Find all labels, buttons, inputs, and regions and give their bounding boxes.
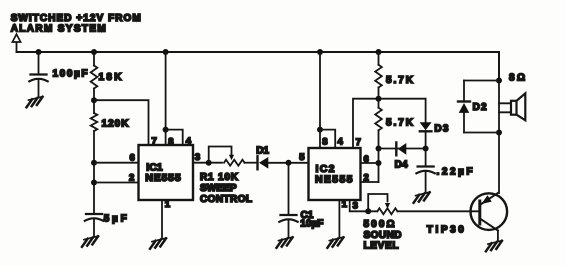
wire 500 ohm to TIP30 base	[397, 210, 479, 212]
svg-text:LEVEL: LEVEL	[364, 240, 399, 251]
svg-text:4: 4	[338, 137, 344, 148]
diode D2	[458, 81, 499, 133]
wire IC2 pin 6	[361, 162, 379, 164]
svg-text:SWEEP: SWEEP	[200, 183, 237, 194]
svg-text:D3: D3	[434, 124, 448, 135]
wire R1 to D1	[245, 162, 258, 164]
node 5.7K mid junction	[376, 96, 382, 102]
svg-text:100µF: 100µF	[53, 69, 88, 80]
wire 18K to junction	[93, 89, 95, 114]
IC1 designator text	[145, 162, 181, 185]
wire 5.7K upper to junction	[378, 88, 380, 108]
junction on rail at 100uF	[36, 49, 42, 55]
potentiometer 500 ohm wiper loop	[368, 194, 390, 211]
svg-text:8Ω: 8Ω	[509, 73, 525, 84]
svg-text:ALARM SYSTEM: ALARM SYSTEM	[11, 24, 106, 35]
wire junction to IC1 pin 7	[94, 100, 149, 145]
potentiometer R1 wiper loop	[209, 147, 234, 163]
wire +12V top rail	[17, 52, 500, 81]
svg-text:8: 8	[168, 137, 173, 148]
ground below 5uF	[82, 236, 98, 247]
svg-text:5µF: 5µF	[104, 214, 127, 225]
svg-text:10µF: 10µF	[300, 219, 323, 230]
node IC1 pin 6 junction	[91, 160, 97, 166]
resistor 120K	[91, 113, 98, 131]
svg-text:1: 1	[342, 199, 348, 210]
wire junction to .22uF	[425, 149, 427, 167]
node IC2 pin 6 junction	[376, 160, 382, 166]
node D3/.22uF junction	[423, 146, 429, 152]
resistor R1 10K element	[224, 160, 245, 166]
op-amp/timer IC1 NE555 box	[139, 145, 194, 200]
junction on rail at 5.7K	[376, 49, 382, 55]
capacitor 5uF	[85, 214, 103, 221]
ground below .22uF	[414, 192, 430, 203]
node 500 ohm left junction	[365, 208, 371, 214]
wire IC2 pin 7 up	[353, 99, 426, 148]
svg-text:500Ω: 500Ω	[364, 219, 395, 230]
wire IC2 pin 8 to pin 4 loop	[320, 130, 335, 148]
wire IC1 pin 3 output	[193, 162, 222, 164]
label 500 ohm SOUND LEVEL	[364, 219, 402, 252]
diode D3	[420, 99, 432, 149]
svg-text:TIP30: TIP30	[427, 224, 464, 235]
svg-text:2: 2	[129, 173, 134, 184]
wire IC2 pin 2	[361, 181, 379, 183]
wire rail to 100uF	[38, 52, 40, 74]
svg-text:7: 7	[152, 136, 157, 147]
resistor 5.7K lower	[375, 108, 382, 131]
svg-text:5.7K: 5.7K	[386, 75, 414, 86]
node D4 left junction	[376, 146, 382, 152]
junction on rail at 18K	[91, 49, 97, 55]
svg-text:CONTROL: CONTROL	[200, 194, 252, 205]
svg-text:120K: 120K	[102, 119, 130, 130]
node IC2 pin8/pin4 tie	[317, 127, 323, 133]
node IC1 pin 2 junction	[91, 180, 97, 186]
wire to IC1 pin 6	[94, 162, 139, 164]
wire C1 to ground	[288, 220, 290, 238]
node C1 junction	[286, 160, 292, 166]
resistor 500 ohm element	[377, 208, 397, 214]
ground below IC2 pin 1	[327, 237, 343, 248]
wire 5uF to ground	[93, 219, 95, 237]
wire .22uF to ground	[425, 171, 427, 192]
svg-text:R1 10K: R1 10K	[200, 172, 239, 183]
ground below 100uF	[27, 97, 43, 108]
wire IC1 pin 8 to pin 4 loop	[166, 130, 183, 145]
ground below IC1 pin 1	[150, 238, 166, 249]
capacitor 100uF	[29, 75, 47, 82]
node IC1 pin8/pin4 tie	[163, 127, 169, 133]
resistor 5.7K upper	[375, 65, 382, 88]
svg-text:D2: D2	[473, 102, 487, 113]
diode D4	[379, 143, 426, 156]
svg-text:8: 8	[322, 137, 327, 148]
svg-text:SWITCHED +12V FROM: SWITCHED +12V FROM	[11, 13, 141, 24]
svg-text:6: 6	[130, 152, 135, 163]
svg-text:NE555: NE555	[315, 173, 353, 185]
svg-text:3: 3	[195, 152, 200, 163]
wire to IC1 pin 2	[94, 182, 139, 184]
capacitor .22uF	[416, 167, 434, 174]
svg-text:18K: 18K	[99, 72, 123, 83]
wire IC2 pin 1 to ground	[338, 200, 340, 237]
header text SWITCHED +12V FROM / ALARM SYSTEM	[11, 13, 141, 35]
diode D1	[258, 156, 269, 169]
label C1 10uF	[300, 210, 323, 230]
transistor Q1 TIP30	[471, 193, 508, 231]
wire TIP30 collector to ground	[497, 231, 499, 241]
ground below C1	[277, 237, 293, 248]
wire rail to IC1 pin 8	[165, 52, 167, 145]
wire rail to 18K	[93, 52, 95, 66]
wire junction to C1	[288, 163, 290, 215]
label R1 10K SWEEP CONTROL	[200, 172, 252, 205]
node +12V input arrow	[12, 34, 20, 52]
node speaker top junction	[496, 78, 502, 84]
ground below TIP30	[486, 241, 502, 252]
wire rail to 5.7K upper	[378, 52, 380, 65]
svg-text:NE555: NE555	[145, 172, 181, 184]
node R1 left junction	[206, 160, 212, 166]
svg-text:5: 5	[299, 152, 305, 163]
IC2 designator text	[315, 163, 353, 185]
svg-text:1: 1	[165, 199, 171, 210]
node speaker bottom junction	[496, 130, 502, 136]
wire IC2 pin 3	[350, 200, 378, 211]
svg-text:D4: D4	[395, 160, 408, 171]
svg-text:4: 4	[186, 136, 192, 147]
svg-text:SOUND: SOUND	[364, 230, 402, 241]
wire D1 to junction	[268, 162, 308, 164]
wire 120K down to 5uF	[93, 131, 95, 214]
resistor 18K	[91, 66, 98, 89]
wire 100uF to ground	[38, 79, 40, 97]
node 18K/120K junction	[91, 97, 97, 103]
svg-text:D1: D1	[256, 146, 269, 157]
wire IC1 pin 1 to ground	[161, 200, 163, 238]
wire speaker column	[498, 81, 500, 194]
wire rail to IC2 pin 8	[319, 52, 321, 148]
capacitor C1	[279, 215, 297, 222]
svg-text:3: 3	[353, 201, 358, 212]
junction on rail at IC1 pin 8	[163, 49, 169, 55]
wire 5.7K lower to D4 junction	[378, 130, 380, 182]
junction on rail at IC2 pin 8	[317, 49, 323, 55]
svg-text:.22µF: .22µF	[437, 167, 473, 178]
speaker 8 ohm	[499, 93, 525, 120]
svg-text:7: 7	[356, 137, 361, 148]
svg-text:5.7K: 5.7K	[386, 118, 414, 129]
timer IC2 NE555 box	[309, 148, 361, 200]
